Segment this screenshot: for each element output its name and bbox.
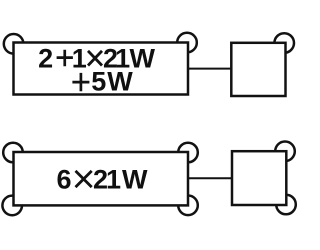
flasher unit box 2 bbox=[232, 151, 286, 205]
svg-text:6: 6 bbox=[56, 165, 71, 195]
terminal pin 2 (top-right of lamp block 1) bbox=[177, 33, 197, 53]
terminal pin 3 (top-right of flasher unit 1) bbox=[274, 33, 294, 53]
wire (lamp block 2 to flasher unit 2) bbox=[188, 177, 232, 179]
terminal pin 8 (top-right of flasher unit 2) bbox=[275, 142, 295, 162]
flasher unit box 1 bbox=[231, 43, 285, 96]
lamp load box 2 bbox=[14, 152, 189, 205]
value label "6x21 W" bbox=[56, 165, 148, 195]
svg-text:1: 1 bbox=[72, 44, 87, 74]
terminal pin 6 (bottom-left of lamp block 2) bbox=[2, 196, 22, 216]
svg-text:5: 5 bbox=[91, 67, 106, 97]
svg-text:2: 2 bbox=[38, 44, 53, 74]
terminal pin 5 (top-right of lamp block 2) bbox=[178, 143, 198, 163]
svg-text:W: W bbox=[107, 67, 133, 97]
svg-text:W: W bbox=[122, 165, 148, 195]
svg-text:1: 1 bbox=[106, 165, 121, 195]
terminal pin 7 (bottom-right of lamp block 2) bbox=[178, 196, 198, 216]
value label "2+1x21W" line 1 bbox=[38, 44, 155, 74]
terminal pin 1 (top-left of lamp block 1) bbox=[4, 34, 24, 54]
terminal pin 9 (bottom-right of flasher unit 2) bbox=[276, 195, 296, 215]
value label "+5W" line 2 bbox=[72, 67, 133, 97]
lamp load box 1 bbox=[14, 43, 189, 95]
svg-text:W: W bbox=[130, 44, 156, 74]
terminal pin 4 (top-left of lamp block 2) bbox=[3, 143, 23, 163]
wire (lamp block 1 to flasher unit 1) bbox=[188, 68, 232, 70]
